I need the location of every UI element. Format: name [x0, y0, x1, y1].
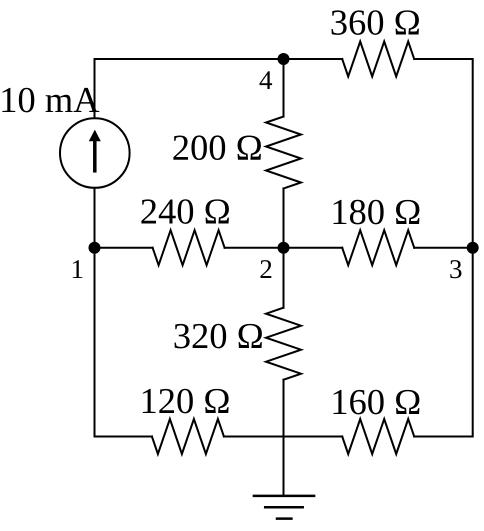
node 1 junction dot	[89, 242, 101, 254]
ground bar 3	[277, 517, 291, 520]
current source arrowhead	[89, 130, 101, 142]
node label 4	[260, 71, 273, 89]
wire node 4 right side after 360 resistor to top-right corner down to node 3	[414, 59, 473, 248]
resistor 160 Ohm	[342, 419, 414, 454]
node 2 junction dot	[278, 242, 290, 254]
label 240 Ohm	[141, 199, 229, 224]
node label 1	[73, 260, 83, 278]
ground bar 2	[265, 506, 303, 509]
current source arrow shaft	[93, 141, 97, 171]
wire top-left corner to node 4	[95, 59, 343, 118]
node 3 junction dot	[467, 242, 479, 254]
resistor 320 Ohm	[266, 308, 301, 380]
wire node 4 down to 200 resistor	[283, 59, 285, 117]
resistor 120 Ohm	[152, 419, 224, 454]
resistor 200 Ohm	[266, 117, 301, 189]
wire 120 resistor to bottom middle	[224, 436, 342, 438]
label 10 mA	[2, 88, 99, 113]
node 4 junction dot	[278, 53, 290, 65]
current source I1 circle	[60, 118, 130, 188]
label 320 Ohm	[175, 324, 262, 349]
node label 3	[450, 260, 461, 278]
wire 320 resistor down through bottom wire to ground	[283, 380, 285, 496]
wire 240 resistor to node 2	[225, 247, 343, 249]
label 200 Ohm	[173, 135, 261, 160]
resistor 240 Ohm	[153, 230, 225, 265]
label 160 Ohm	[334, 390, 420, 415]
wire node 1 to 240 resistor	[95, 247, 153, 249]
node label 2	[260, 260, 271, 278]
wire 200 resistor to node 2 and down to 320 resistor	[283, 189, 285, 308]
wire current source bottom to node 1 and down to bottom-left corner	[95, 189, 152, 437]
wire 180 resistor to node 3	[414, 247, 473, 249]
ground bar 1	[254, 495, 314, 498]
label 120 Ohm	[143, 389, 229, 414]
wire node 3 down right side to bottom-right corner	[414, 248, 473, 437]
label 360 Ohm	[332, 10, 419, 35]
resistor 360 Ohm	[342, 42, 414, 77]
label 180 Ohm	[334, 200, 420, 225]
resistor 180 Ohm	[342, 230, 414, 265]
